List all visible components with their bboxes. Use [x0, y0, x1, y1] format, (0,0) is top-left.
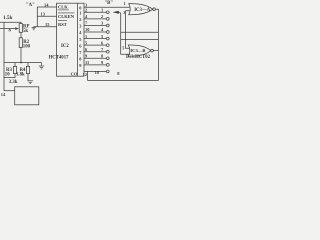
svg-text:9: 9 [79, 63, 82, 68]
svg-text:9: 9 [85, 53, 88, 58]
svg-text:5: 5 [122, 45, 124, 50]
switch contact 3 circle [106, 24, 109, 27]
svg-text:3: 3 [101, 21, 104, 26]
svg-text:8: 8 [117, 71, 120, 76]
wire R3 bottom to rail [4, 74, 15, 78]
wire node A to pin 14 [37, 6, 56, 8]
svg-text:10: 10 [85, 27, 90, 32]
switch contact 4 circle [106, 31, 109, 34]
svg-text:4: 4 [85, 14, 88, 19]
resistor R4 [26, 66, 29, 73]
svg-text:10: 10 [5, 73, 10, 78]
wire horizontal node row [4, 62, 42, 64]
svg-text:IC3—B: IC3—B [130, 48, 145, 53]
svg-text:CO: CO [71, 71, 78, 76]
wire CO row [84, 70, 106, 72]
svg-text:RST: RST [58, 22, 67, 27]
svg-text:1.8k: 1.8k [16, 73, 25, 78]
switch contact 9 circle [106, 64, 109, 67]
wire gate A input2 [126, 10, 130, 12]
svg-text:1: 1 [101, 8, 103, 13]
svg-text:5: 5 [79, 37, 82, 42]
svg-text:100: 100 [23, 45, 31, 50]
wire R4 bottom to ground [27, 74, 29, 81]
svg-text:6: 6 [85, 47, 88, 52]
svg-text:3.3k: 3.3k [9, 80, 18, 85]
wire L2 [121, 39, 159, 41]
svg-text:2: 2 [123, 10, 125, 15]
svg-text:IC2: IC2 [61, 44, 69, 49]
svg-text:1: 1 [85, 34, 87, 39]
svg-text:3: 3 [79, 24, 82, 29]
switch contact 2 circle [106, 18, 109, 21]
wire L1 [121, 31, 159, 33]
IC2 pin name CLKEN [58, 12, 75, 14]
wire Q9 row [84, 64, 106, 66]
wire Q2 row [84, 18, 106, 20]
svg-text:IC3—A: IC3—A [134, 8, 151, 13]
wire pin 15 [34, 26, 57, 28]
wire bottom rail [88, 80, 159, 82]
wire gate A output down right edge [156, 9, 159, 80]
svg-text:12: 12 [83, 72, 87, 77]
svg-text:5: 5 [101, 34, 104, 39]
svg-text:10: 10 [95, 70, 100, 75]
IC1 box [15, 87, 39, 105]
svg-text:8: 8 [79, 56, 82, 61]
svg-text:1: 1 [79, 11, 81, 16]
svg-text:5k: 5k [23, 29, 28, 34]
switch contact 8 circle [106, 57, 109, 60]
wire Q1 row [84, 11, 106, 13]
wire to R4 top [27, 63, 29, 67]
switch contact 1 circle [106, 11, 109, 14]
wire vertical tie pins 14-15 [36, 7, 38, 27]
switch contact 5 circle [106, 37, 109, 40]
switch contact 10 circle [106, 70, 109, 73]
svg-text:"A": "A" [26, 3, 35, 8]
wire Q7 row [84, 51, 106, 53]
switch contact 7 circle [106, 50, 109, 53]
ground GND2 below R4 [28, 81, 33, 84]
svg-text:2: 2 [101, 14, 103, 19]
svg-text:CLKEN: CLKEN [58, 14, 75, 19]
svg-text:7: 7 [79, 50, 82, 55]
wire Q8 row [84, 57, 106, 59]
wire Q5 row [84, 38, 106, 40]
svg-text:2: 2 [79, 17, 81, 22]
IC2 box [57, 3, 85, 76]
switch contact 6 circle [106, 44, 109, 47]
wire Q0 row [84, 6, 130, 8]
wire gate B output [153, 50, 158, 52]
ground GND1 right of R4 [39, 63, 44, 70]
svg-text:14: 14 [1, 92, 6, 97]
potentiometer arrow [15, 27, 19, 30]
svg-text:8: 8 [101, 53, 104, 58]
svg-text:11: 11 [85, 60, 89, 65]
wire from left edge to RP top [0, 22, 21, 23]
IC2 inner column line [77, 3, 79, 76]
IC2 pin name RST [58, 20, 67, 22]
NOR gate IC3-B [128, 45, 153, 56]
svg-text:1: 1 [124, 1, 126, 6]
svg-text:6: 6 [101, 40, 104, 45]
wire pin12 down to rail [87, 71, 89, 80]
svg-text:CLK: CLK [58, 5, 68, 10]
svg-text:"B": "B" [105, 1, 114, 6]
svg-text:14: 14 [44, 2, 49, 7]
resistor RP [19, 24, 22, 33]
wire Q3 row [84, 24, 106, 26]
svg-text:1.5k: 1.5k [3, 15, 12, 21]
svg-text:IC3:HCT02: IC3:HCT02 [126, 55, 151, 60]
svg-text:2: 2 [85, 8, 87, 13]
rotary switch wiper arrow [113, 11, 119, 14]
resistor R3 [13, 66, 16, 73]
svg-text:7: 7 [101, 47, 104, 52]
svg-text:7: 7 [85, 21, 88, 26]
wire RP to R2 [20, 32, 22, 38]
svg-text:5: 5 [85, 40, 88, 45]
wire to R3 top [14, 63, 16, 67]
svg-text:9: 9 [101, 60, 104, 65]
wire to RP wiper [0, 28, 15, 30]
wire wiper V1 [121, 13, 130, 54]
resistor R2 [19, 38, 22, 48]
wire Q6 row [84, 44, 106, 46]
svg-text:HCT4017: HCT4017 [49, 56, 70, 61]
wire R2 down to node [20, 48, 22, 63]
wire pin 13 [37, 15, 56, 17]
wire rail into IC1 box [4, 90, 15, 92]
wire V2 gate A in2 down to gate B in1 [126, 11, 130, 49]
svg-text:4: 4 [79, 30, 82, 35]
wire left rail [3, 22, 5, 90]
junction node at R2 bottom [20, 62, 22, 64]
NOR gate IC3-A [129, 4, 156, 15]
svg-text:4: 4 [101, 27, 104, 32]
ground near pin15 [32, 27, 36, 30]
svg-text:8: 8 [9, 27, 12, 32]
wire Q4 row [84, 31, 106, 33]
svg-text:6: 6 [79, 43, 82, 48]
